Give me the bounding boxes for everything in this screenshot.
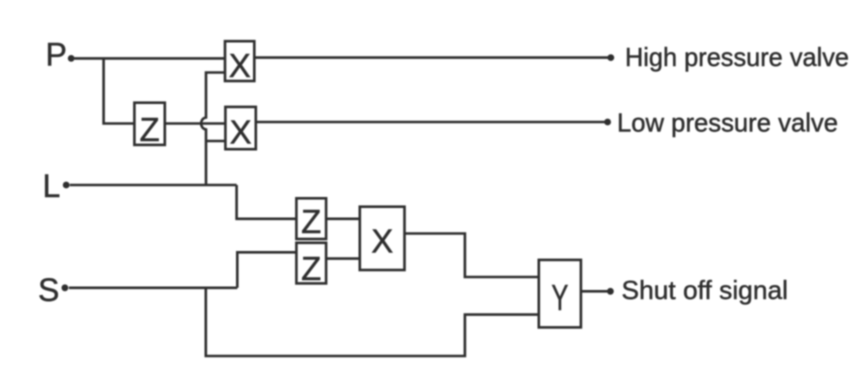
svg-text:Z: Z	[140, 111, 160, 148]
wire X3 output to Y upper input	[405, 234, 539, 278]
wire S branch down along bottom to Y lower input	[206, 288, 539, 356]
block Z3	[296, 243, 326, 284]
svg-text:X: X	[229, 47, 251, 84]
wire Z1 output to X2	[165, 122, 226, 125]
wire P input line	[75, 57, 226, 60]
wire Z3 output to X3	[326, 257, 360, 260]
svg-text:Low pressure valve: Low pressure valve	[617, 108, 838, 138]
node Low pressure valve dot	[604, 119, 611, 126]
block Z1	[134, 103, 164, 145]
wire X2 output to Low pressure valve	[256, 121, 606, 124]
block Z2	[296, 198, 326, 239]
svg-text:X: X	[371, 223, 393, 260]
node Shut off signal dot	[607, 288, 614, 295]
wire Z2 output to X3	[326, 218, 360, 221]
node S terminal dot	[62, 284, 69, 291]
block Y	[539, 260, 581, 328]
block X2 (low pressure)	[225, 107, 255, 149]
svg-text:L: L	[43, 168, 61, 204]
wire S line up to Z3	[237, 252, 296, 287]
wire Y output to Shut off signal	[581, 290, 608, 293]
wire P branch down to Z1	[104, 58, 135, 123]
wire S input line	[69, 286, 237, 289]
svg-text:Z: Z	[301, 250, 321, 287]
wire L vertical riser with hop over Z1 output	[201, 73, 225, 186]
block X3	[360, 207, 405, 270]
node L terminal dot	[63, 182, 70, 189]
wire L line down to Z2	[237, 185, 297, 219]
svg-text:P: P	[46, 37, 67, 73]
svg-text:Y: Y	[551, 277, 568, 318]
wire riser branch to X2 lower input	[206, 140, 225, 143]
wire X1 output to High pressure valve	[254, 56, 608, 59]
node P terminal dot	[68, 55, 75, 62]
svg-text:Shut off signal: Shut off signal	[622, 275, 789, 305]
wire L input line	[70, 184, 237, 187]
svg-text:S: S	[38, 272, 59, 308]
svg-text:High pressure valve: High pressure valve	[625, 42, 849, 72]
block X1 (high pressure)	[225, 41, 254, 81]
node High pressure valve dot	[607, 54, 614, 61]
svg-text:X: X	[230, 114, 252, 151]
svg-text:Z: Z	[301, 203, 321, 240]
